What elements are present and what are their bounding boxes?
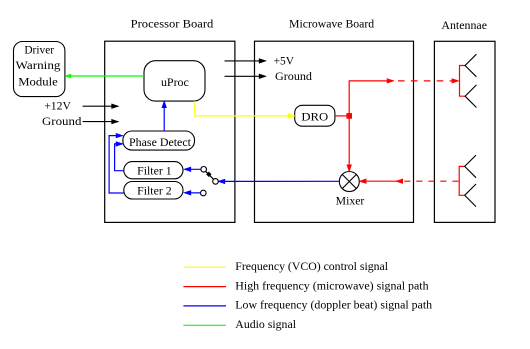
antenna 2 [459,155,476,207]
uProc U1 [144,61,205,101]
DRO [295,105,335,126]
svg-text:Processor Board: Processor Board [131,17,214,31]
legend: blue doppler beat signal path [183,298,432,312]
legend: red microwave signal path [183,278,428,292]
svg-text:Microwave Board: Microwave Board [289,17,374,31]
svg-text:Antennae: Antennae [441,18,487,32]
switch SW1 [201,167,219,196]
blue filter2-to-phase wire [109,133,124,193]
svg-text:Phase Detect: Phase Detect [129,135,192,149]
ground rail [225,69,313,83]
blue switch-to-filter2 wire [184,191,200,195]
junction node [346,113,352,119]
blue filter1-to-phase wire [115,142,124,171]
blue mixer-to-switch wire [218,179,339,183]
blue phase-detect to uProc wire [162,101,166,131]
svg-text:DRO: DRO [301,109,328,123]
blue switch-to-filter1 wire [184,167,201,171]
svg-text:Audio signal: Audio signal [235,317,296,331]
svg-text:Frequency (VCO) control signal: Frequency (VCO) control signal [235,259,388,273]
mixer [336,172,365,208]
green audio wire [65,74,144,78]
Antennae board [434,18,495,223]
svg-text:Filter 2: Filter 2 [137,184,172,198]
svg-text:Warning: Warning [16,58,61,72]
legend: yellow VCO control signal [183,259,388,273]
Microwave Board [255,17,414,223]
svg-text:Filter 1: Filter 1 [137,164,172,178]
Filter 1 [124,162,183,179]
antenna 1 [460,54,477,107]
svg-text:Low frequency (doppler beat) s: Low frequency (doppler beat) signal path [235,298,432,312]
svg-text:High frequency (microwave) sig: High frequency (microwave) signal path [235,278,428,292]
svg-text:Mixer: Mixer [336,194,365,208]
svg-text:Ground: Ground [42,114,81,128]
Phase Detect [123,131,195,150]
ground input [42,114,118,128]
svg-text:+5V: +5V [274,54,295,68]
red junction-to-mixer wire [347,118,351,172]
+5V rail [225,54,295,68]
legend: green audio signal [183,317,296,331]
svg-text:+12V: +12V [44,98,71,112]
red transmit wire to antenna 1 [349,79,458,116]
Filter 2 [124,182,183,200]
Driver Warning Module [14,42,65,97]
+12V input [44,98,118,112]
svg-text:Ground: Ground [275,69,312,83]
Processor Board [105,17,235,223]
svg-text:Driver: Driver [24,42,54,56]
red receive wire from antenna 2 to mixer [360,179,460,183]
svg-text:uProc: uProc [161,75,189,89]
red DRO-to-junction wire [335,115,349,117]
yellow VCO control wire [195,101,295,118]
svg-text:Module: Module [18,74,58,88]
